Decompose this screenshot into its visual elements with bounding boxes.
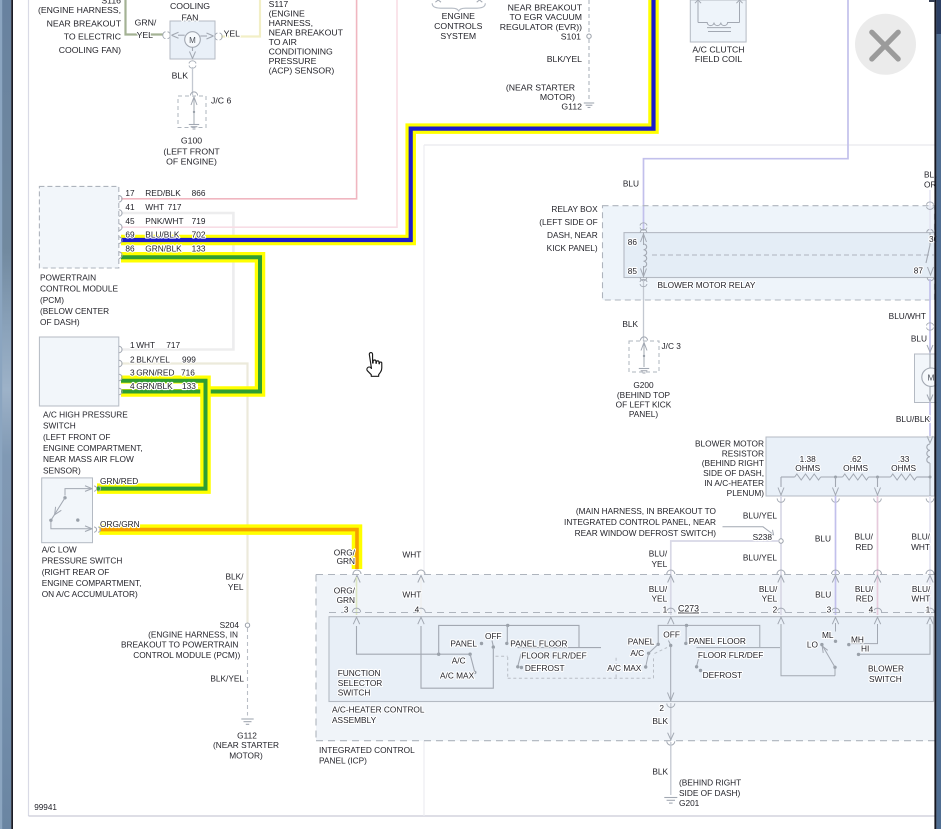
label S116 block: [38, 0, 122, 55]
switch2 OFF wiper: [668, 641, 672, 648]
label INTEGRATED CONTROL PANEL: [319, 745, 415, 765]
label 1.38 OHMS: [795, 454, 820, 473]
label G201 block: [679, 778, 741, 809]
svg-text:YEL: YEL: [228, 582, 244, 592]
svg-text:MOTOR): MOTOR): [229, 750, 263, 760]
svg-text:CONTROLS: CONTROLS: [434, 21, 482, 31]
svg-text:DEFROST: DEFROST: [525, 663, 565, 673]
svg-text:BLU/: BLU/: [759, 584, 778, 594]
svg-text:NEAR BREAKOUT: NEAR BREAKOUT: [508, 3, 583, 13]
svg-text:85: 85: [628, 266, 638, 276]
label PCM block: [40, 272, 119, 327]
svg-text:RED: RED: [855, 542, 873, 552]
svg-text:LO: LO: [807, 639, 819, 649]
arrow into motor box: [927, 345, 933, 352]
label ENGINE CONTROLS SYSTEM: [434, 11, 482, 41]
svg-text:M: M: [189, 36, 196, 45]
label WHT 4: [402, 590, 421, 615]
svg-text:GRN/RED: GRN/RED: [136, 367, 174, 377]
svg-text:COOLING FAN): COOLING FAN): [59, 45, 121, 55]
resistor chain wire: [781, 476, 930, 478]
svg-text:ORG/GRN: ORG/GRN: [100, 519, 140, 529]
svg-text:GRN/BLK: GRN/BLK: [145, 243, 182, 253]
svg-text:C273: C273: [678, 604, 699, 614]
svg-text:FLOOR FLR/DEF: FLOOR FLR/DEF: [698, 650, 763, 660]
switch2 FLR/DEF contact: [695, 654, 700, 669]
svg-text:BLU: BLU: [911, 333, 927, 343]
svg-text:BLU: BLU: [815, 534, 831, 544]
svg-text:BLU/: BLU/: [649, 584, 668, 594]
PCM pin bumps: [119, 195, 122, 258]
wire WHT 717: [121, 213, 233, 350]
wire BLU/YEL 1 branch: [671, 541, 779, 615]
svg-text:WHT: WHT: [402, 550, 421, 560]
switch2 DEFROST contact: [699, 669, 702, 672]
label YEL: [224, 29, 241, 39]
connector on YEL: [215, 33, 222, 40]
svg-text:PANEL: PANEL: [450, 639, 477, 649]
relay coil: [641, 233, 647, 278]
ICP outer dashed box bottom: [316, 740, 935, 742]
svg-text:BLU/BLK: BLU/BLK: [145, 230, 180, 240]
svg-text:IN A/C-HEATER: IN A/C-HEATER: [704, 478, 764, 488]
label J/C 6: [211, 96, 231, 106]
svg-text:TO AIR: TO AIR: [269, 37, 297, 47]
svg-text:BLK: BLK: [622, 319, 638, 329]
wire BLU/ORG above relay 30: [929, 190, 931, 231]
wire BLU/RED 4 below resistor: [877, 496, 879, 615]
svg-text:4: 4: [869, 604, 874, 614]
svg-text:J/C 3: J/C 3: [662, 341, 682, 351]
relay pin 87 bump: [927, 278, 934, 281]
connector ORG/GRN pin: [94, 527, 101, 532]
svg-text:G100: G100: [181, 135, 202, 145]
label BLU/YEL 2: [759, 584, 778, 614]
svg-text:A/C CLUTCH: A/C CLUTCH: [692, 45, 744, 55]
connector on GRN/YEL at fan: [163, 32, 170, 39]
svg-text:FLOOR FLR/DEF: FLOOR FLR/DEF: [521, 650, 586, 660]
svg-text:OF DASH): OF DASH): [40, 317, 80, 327]
wire GRN/YEL from S116 to cooling fan: [126, 0, 164, 35]
svg-text:(LEFT FRONT OF: (LEFT FRONT OF: [43, 432, 110, 442]
svg-text:ENGINE COMPARTMENT,: ENGINE COMPARTMENT,: [43, 443, 143, 453]
svg-text:G200: G200: [633, 380, 654, 390]
svg-text:A/C-HEATER CONTROL: A/C-HEATER CONTROL: [332, 705, 425, 715]
svg-text:(LEFT FRONT: (LEFT FRONT: [163, 146, 220, 156]
svg-text:REAR WINDOW DEFROST SWITCH): REAR WINDOW DEFROST SWITCH): [575, 528, 717, 538]
connector BLU at relay: [640, 223, 647, 230]
svg-text:CONTROL MODULE: CONTROL MODULE: [40, 284, 119, 294]
svg-text:BLU/: BLU/: [855, 584, 874, 594]
svg-text:PANEL FLOOR: PANEL FLOOR: [510, 639, 567, 649]
switch2 sub box: [696, 647, 780, 649]
svg-text:17: 17: [125, 188, 135, 198]
switch1 PANEL contact: [480, 642, 483, 645]
svg-text:ASSEMBLY: ASSEMBLY: [332, 715, 377, 725]
svg-text:GRN/RED: GRN/RED: [100, 476, 138, 486]
J/C 6 internal arrow: [191, 97, 197, 124]
svg-text:717: 717: [166, 340, 180, 350]
label S117 block: [269, 0, 344, 76]
svg-text:NEAR MASS AIR FLOW: NEAR MASS AIR FLOW: [43, 454, 134, 464]
label BLU motor: [911, 333, 927, 343]
svg-text:716: 716: [181, 367, 195, 377]
page background left strip: [0, 0, 13, 829]
label relay 87: [914, 265, 924, 275]
label A/C high pressure block: [43, 409, 143, 475]
wire BLU/YEL 2 below resistor: [780, 496, 782, 615]
svg-text:866: 866: [192, 188, 206, 198]
wire S101 dashed to G112: [588, 0, 590, 100]
junction block J/C 3: [629, 337, 659, 372]
svg-text:3: 3: [344, 604, 349, 614]
relay pin 30 bump: [927, 229, 934, 232]
clutch coil winding: [698, 23, 740, 32]
svg-text:COOLING: COOLING: [170, 1, 210, 11]
label FUNCTION SELECTOR SWITCH: [338, 668, 383, 697]
label ORG/GRN above ICP: [334, 547, 356, 566]
svg-text:BLK/YEL: BLK/YEL: [547, 54, 582, 64]
cooling fan box: [170, 21, 215, 59]
label ORG/GRN at switch: [100, 519, 140, 529]
svg-text:KICK PANEL): KICK PANEL): [547, 243, 598, 253]
svg-text:BLU/BLK: BLU/BLK: [896, 414, 931, 424]
svg-text:BLU/YEL: BLU/YEL: [743, 553, 778, 563]
svg-text:(MAIN HARNESS, IN BREAKOUT TO: (MAIN HARNESS, IN BREAKOUT TO: [576, 506, 717, 516]
J/C 6 ground: [189, 125, 199, 129]
svg-text:BLK/YEL: BLK/YEL: [136, 354, 170, 364]
svg-text:ENGINE COMPARTMENT,: ENGINE COMPARTMENT,: [42, 578, 142, 588]
A/C low pressure switch box: [42, 478, 93, 543]
switch2 PANEL contact: [657, 643, 660, 646]
connector BLU/YEL-1 at ICP top: [667, 570, 675, 583]
svg-text:ORG/: ORG/: [334, 586, 356, 596]
resistor .62 ohms: [843, 474, 869, 480]
fan left arrow: [172, 32, 185, 38]
label BLK fan: [172, 71, 189, 81]
svg-text:NEAR BREAKOUT: NEAR BREAKOUT: [47, 18, 122, 28]
wire BLU/BLK 702 highlight: [121, 0, 654, 240]
switch2 panel-floor stub: [684, 624, 688, 645]
wire BLK ICP output: [670, 703, 672, 741]
label BLK/YEL low: [210, 673, 244, 683]
svg-text:J/C 6: J/C 6: [211, 96, 231, 106]
svg-text:BREAKOUT TO POWERTRAIN: BREAKOUT TO POWERTRAIN: [121, 640, 238, 650]
splice S238: [779, 539, 783, 543]
label BLK G201: [652, 767, 668, 777]
svg-text:(LEFT SIDE OF: (LEFT SIDE OF: [539, 217, 597, 227]
svg-text:A/C: A/C: [630, 648, 644, 658]
svg-text:717: 717: [168, 202, 182, 212]
label switch2 positions: [607, 630, 763, 680]
svg-text:OHMS: OHMS: [795, 463, 820, 473]
svg-text:(ACP) SENSOR): (ACP) SENSOR): [269, 66, 335, 76]
svg-text:(BEHIND RIGHT: (BEHIND RIGHT: [679, 778, 741, 788]
resistor junction dots: [834, 476, 932, 479]
relay internal dashed line: [652, 254, 935, 256]
S238 pointer line: [723, 527, 774, 535]
engine controls brace: [432, 0, 485, 11]
svg-text:BLK/: BLK/: [226, 572, 245, 582]
wire BLU/BLK motor to resistor: [929, 403, 931, 437]
svg-text:PANEL FLOOR: PANEL FLOOR: [689, 636, 746, 646]
wire WHT 4 pale inside ICP: [420, 577, 422, 615]
svg-text:99941: 99941: [34, 803, 57, 812]
svg-text:G112: G112: [561, 102, 582, 112]
svg-text:(NEAR STARTER: (NEAR STARTER: [213, 740, 279, 750]
label relay 85: [628, 266, 638, 276]
svg-text:A/C LOW: A/C LOW: [42, 544, 77, 554]
svg-text:SIDE OF DASH): SIDE OF DASH): [679, 788, 741, 798]
svg-text:SIDE OF DASH,: SIDE OF DASH,: [703, 468, 764, 478]
connector below switch box: [667, 704, 675, 708]
label BLU/YEL below S238: [743, 553, 778, 563]
label A/C CLUTCH FIELD COIL: [692, 45, 744, 65]
PCM connector box: [39, 186, 118, 268]
svg-text:POWERTRAIN: POWERTRAIN: [40, 272, 96, 282]
svg-text:BLOWER: BLOWER: [868, 664, 904, 674]
svg-text:YEL: YEL: [652, 594, 668, 604]
ground G112 bottom: [241, 719, 253, 724]
label BLU/RED 4: [855, 584, 874, 614]
wire BLK to G201: [670, 742, 672, 795]
svg-text:PRESSURE: PRESSURE: [269, 56, 317, 66]
wire BLK/YEL 999: [121, 364, 248, 623]
function selector switch outer box: [329, 617, 934, 702]
svg-text:SELECTOR: SELECTOR: [338, 678, 383, 688]
wire BLU/WHT 1 below resistor: [929, 496, 931, 615]
section divider box: [424, 145, 935, 816]
svg-text:YEL: YEL: [224, 29, 241, 39]
switch1 DEFROST contact: [520, 666, 523, 669]
relay contact arm: [926, 233, 934, 275]
svg-text:BLU: BLU: [623, 178, 639, 188]
label BLU/WHT above ICP: [911, 532, 931, 552]
blower switch pivot arm: [820, 643, 837, 676]
svg-text:FUNCTION: FUNCTION: [338, 668, 381, 678]
svg-text:45: 45: [125, 216, 135, 226]
relay pin 86 bump: [640, 229, 647, 232]
label PCM pins: [125, 188, 205, 253]
label BLOWER SWITCH: [868, 664, 904, 685]
connector BLU/ORG at relay box: [927, 202, 934, 209]
svg-text:YEL: YEL: [762, 594, 778, 604]
label RELAY BOX block: [539, 204, 598, 253]
blower motor box: [915, 354, 939, 403]
svg-text:SYSTEM: SYSTEM: [440, 31, 476, 41]
svg-text:(BEHIND RIGHT: (BEHIND RIGHT: [702, 458, 764, 468]
label BLU 3: [815, 590, 832, 615]
svg-text:TO ELECTRIC: TO ELECTRIC: [64, 32, 121, 42]
label BLU/ORG: [924, 169, 941, 189]
connector BLU/WHT: [927, 323, 934, 330]
wire BLU to relay 86: [644, 0, 849, 229]
svg-text:ENGINE: ENGINE: [442, 11, 476, 21]
svg-text:BLK/YEL: BLK/YEL: [210, 673, 244, 683]
svg-text:OHMS: OHMS: [843, 463, 868, 473]
svg-text:RED: RED: [856, 594, 874, 604]
wire BLK fan to J/C 6: [192, 67, 194, 95]
svg-text:CONTROL MODULE (PCM)): CONTROL MODULE (PCM)): [133, 650, 240, 660]
ICP outer dashed box top: [316, 574, 935, 576]
svg-text:OF LEFT KICK: OF LEFT KICK: [616, 399, 672, 409]
ICP function switch box fill: [329, 617, 934, 702]
svg-text:BLU/WHT: BLU/WHT: [889, 311, 926, 321]
svg-text:YEL: YEL: [137, 30, 154, 40]
svg-text:ON A/C ACCUMULATOR): ON A/C ACCUMULATOR): [42, 589, 138, 599]
svg-text:PRESSURE SWITCH: PRESSURE SWITCH: [42, 556, 123, 566]
splice S101: [587, 34, 591, 38]
svg-text:SWITCH: SWITCH: [869, 674, 902, 684]
svg-text:A/C: A/C: [452, 655, 466, 665]
fan right arrow: [200, 33, 213, 39]
svg-text:BLK: BLK: [652, 716, 668, 726]
svg-text:2: 2: [130, 354, 135, 364]
label BLK/YEL mid: [226, 572, 245, 592]
blower motor resistor box fill: [766, 437, 935, 496]
svg-text:A/C MAX: A/C MAX: [607, 663, 642, 673]
relay box outer dashed: [603, 206, 935, 300]
relay body fill: [624, 233, 935, 278]
svg-text:2: 2: [773, 604, 778, 614]
svg-text:999: 999: [182, 354, 196, 364]
ICP outer dashed box left: [315, 575, 317, 741]
blower switch wire 2: [781, 624, 835, 676]
relay pin 85 bump: [640, 278, 647, 281]
junction block J/C 6: [178, 92, 206, 128]
label G112 bottom block: [213, 730, 279, 760]
wire PNK/WHT 719: [121, 0, 397, 227]
connector BLU/WHT-1 at ICP top: [926, 570, 934, 583]
wire BLU 3 below resistor: [835, 496, 837, 615]
svg-text:SWITCH: SWITCH: [338, 688, 371, 698]
blower motor relay body: [624, 233, 935, 278]
switch2 wiper chain: [644, 644, 658, 668]
label BLK/YEL top: [547, 54, 582, 64]
switch1 sub box: [518, 647, 601, 649]
blower switch wire 1 HI: [857, 624, 930, 656]
label BLU/YEL 1: [649, 584, 668, 614]
label EGR block: [500, 3, 583, 32]
svg-text:PANEL (ICP): PANEL (ICP): [319, 756, 367, 766]
svg-text:86: 86: [628, 237, 638, 247]
label GRN/YEL: [135, 17, 157, 40]
svg-text:RELAY BOX: RELAY BOX: [551, 204, 598, 214]
label blower switch positions: [807, 630, 869, 654]
label .62 OHMS: [843, 454, 868, 473]
wire RED/BLK 866: [121, 0, 357, 199]
svg-text:G201: G201: [679, 798, 700, 808]
svg-text:1: 1: [926, 604, 931, 614]
connector BLU/YEL-2 at ICP top: [777, 570, 785, 583]
svg-text:GRN: GRN: [337, 556, 355, 566]
entry arrows into switch box: [353, 617, 933, 624]
relay box region fill: [603, 206, 935, 300]
svg-text:BLOWER MOTOR: BLOWER MOTOR: [695, 438, 764, 448]
svg-text:4: 4: [130, 381, 135, 391]
label ORG/GRN 3: [334, 586, 356, 615]
svg-text:WHT: WHT: [911, 542, 930, 552]
svg-text:69: 69: [125, 230, 135, 240]
svg-text:YEL: YEL: [652, 559, 668, 569]
svg-text:3: 3: [130, 367, 135, 377]
label J/C 3: [662, 341, 682, 351]
fan bottom arrow: [190, 47, 196, 58]
svg-text:BLK: BLK: [652, 767, 668, 777]
svg-text:A/C HIGH PRESSURE: A/C HIGH PRESSURE: [43, 409, 128, 419]
connector BLU-3 at ICP top: [832, 570, 840, 583]
resistor 1.38 ohms: [795, 474, 821, 480]
svg-text:S238: S238: [753, 532, 773, 542]
wire ORG/GRN highlight: [100, 530, 358, 569]
svg-text:2: 2: [659, 703, 664, 713]
svg-text:DASH, NEAR: DASH, NEAR: [547, 230, 598, 240]
label G100 block: [163, 135, 220, 166]
svg-text:(PCM): (PCM): [40, 295, 64, 305]
svg-text:GRN/: GRN/: [135, 17, 157, 27]
svg-text:OF ENGINE): OF ENGINE): [166, 157, 217, 167]
connector below relay 85: [640, 279, 647, 286]
ground G112 top: [584, 103, 594, 107]
svg-text:(ENGINE: (ENGINE: [269, 8, 305, 18]
wire ORG/GRN pale inside ICP: [356, 577, 358, 615]
label BLU above ICP: [815, 534, 831, 544]
label .33 OHMS: [891, 454, 916, 473]
svg-text:HI: HI: [861, 643, 869, 653]
label BLU/WHT: [889, 311, 926, 321]
A/C clutch field coil box: [690, 0, 746, 42]
resistor feed coil: [927, 444, 930, 496]
svg-text:BLU/: BLU/: [912, 584, 931, 594]
clutch coil leads: [695, 0, 743, 22]
label BLU/YEL left: [649, 549, 668, 569]
svg-text:SWITCH: SWITCH: [43, 421, 76, 431]
J/C 3 ground: [639, 369, 649, 373]
svg-text:BLU: BLU: [815, 590, 831, 600]
switch1 panel-floor stub: [505, 624, 509, 645]
svg-text:MOTOR): MOTOR): [540, 92, 575, 102]
svg-text:4: 4: [415, 604, 420, 614]
label relay 30: [929, 234, 939, 244]
svg-text:ML: ML: [822, 630, 834, 640]
label BLU/RED above ICP: [855, 532, 874, 552]
label WHT above ICP: [402, 550, 421, 560]
white label band pin4: [121, 384, 198, 389]
label S101: [561, 32, 581, 42]
svg-text:86: 86: [125, 243, 135, 253]
label 99941: [34, 803, 57, 812]
svg-text:(BELOW CENTER: (BELOW CENTER: [40, 306, 109, 316]
svg-text:PANEL: PANEL: [628, 637, 655, 647]
C273 crossing arcs: [352, 608, 934, 612]
svg-text:133: 133: [182, 381, 196, 391]
label NEAR STARTER MOTOR top: [506, 83, 575, 102]
svg-text:S101: S101: [561, 32, 581, 42]
label S238: [753, 532, 773, 542]
svg-text:NEAR BREAKOUT: NEAR BREAKOUT: [269, 27, 344, 37]
mouse hand cursor: [367, 353, 382, 377]
connector WHT at ICP top: [417, 570, 425, 583]
svg-text:OHMS: OHMS: [891, 463, 916, 473]
svg-text:INTEGRATED CONTROL: INTEGRATED CONTROL: [319, 745, 415, 755]
label BLK relay: [622, 319, 638, 329]
close button: [855, 14, 916, 75]
svg-text:BLU/: BLU/: [912, 532, 931, 542]
svg-text:(ENGINE HARNESS, IN: (ENGINE HARNESS, IN: [148, 629, 238, 639]
resistor .33 ohms: [891, 474, 917, 480]
svg-text:3: 3: [827, 604, 832, 614]
svg-text:BLU/: BLU/: [855, 532, 874, 542]
